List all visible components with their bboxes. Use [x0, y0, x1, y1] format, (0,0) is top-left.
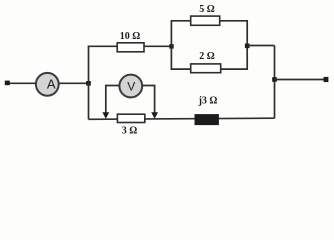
wire bottom branch [89, 118, 275, 119]
inductor j3ohm [195, 95, 218, 124]
resistor 3ohm [117, 114, 144, 136]
wire parallel out to right vertical [247, 45, 274, 47]
voltmeter V [119, 75, 142, 98]
wire left terminal to ammeter [7, 82, 36, 84]
wire parallel left vertical [170, 21, 172, 69]
ammeter A [36, 73, 59, 96]
wire top branch left [88, 45, 118, 47]
wire voltmeter left arm [106, 86, 120, 114]
wire parallel right vertical [246, 21, 248, 69]
terminal right [324, 77, 329, 82]
svg-text:10 Ω: 10 Ω [120, 31, 141, 42]
resistor 2ohm [191, 51, 221, 73]
node right terminal junction [272, 77, 277, 82]
resistor 5ohm [191, 4, 220, 25]
svg-text:j3 Ω: j3 Ω [198, 95, 218, 106]
node junction left [86, 81, 91, 86]
arrow left [102, 112, 109, 119]
node parallel left [169, 44, 173, 48]
svg-text:A: A [47, 77, 56, 92]
wire parallel top branch [171, 20, 248, 22]
svg-text:5 Ω: 5 Ω [199, 4, 215, 15]
wire to right terminal [275, 79, 325, 81]
svg-text:2 Ω: 2 Ω [199, 51, 215, 62]
wire voltmeter right arm [142, 86, 154, 114]
wire right vertical [274, 46, 276, 119]
wire ammeter to node [59, 82, 89, 84]
svg-text:V: V [127, 79, 135, 93]
arrow right [151, 112, 158, 119]
terminal left [5, 81, 10, 86]
wire vertical left node [88, 46, 90, 119]
wire 10ohm to parallel section [144, 45, 172, 47]
wire parallel bottom branch [171, 68, 248, 70]
svg-text:3 Ω: 3 Ω [122, 126, 138, 137]
node parallel right [245, 44, 250, 49]
resistor 10ohm [117, 31, 144, 52]
